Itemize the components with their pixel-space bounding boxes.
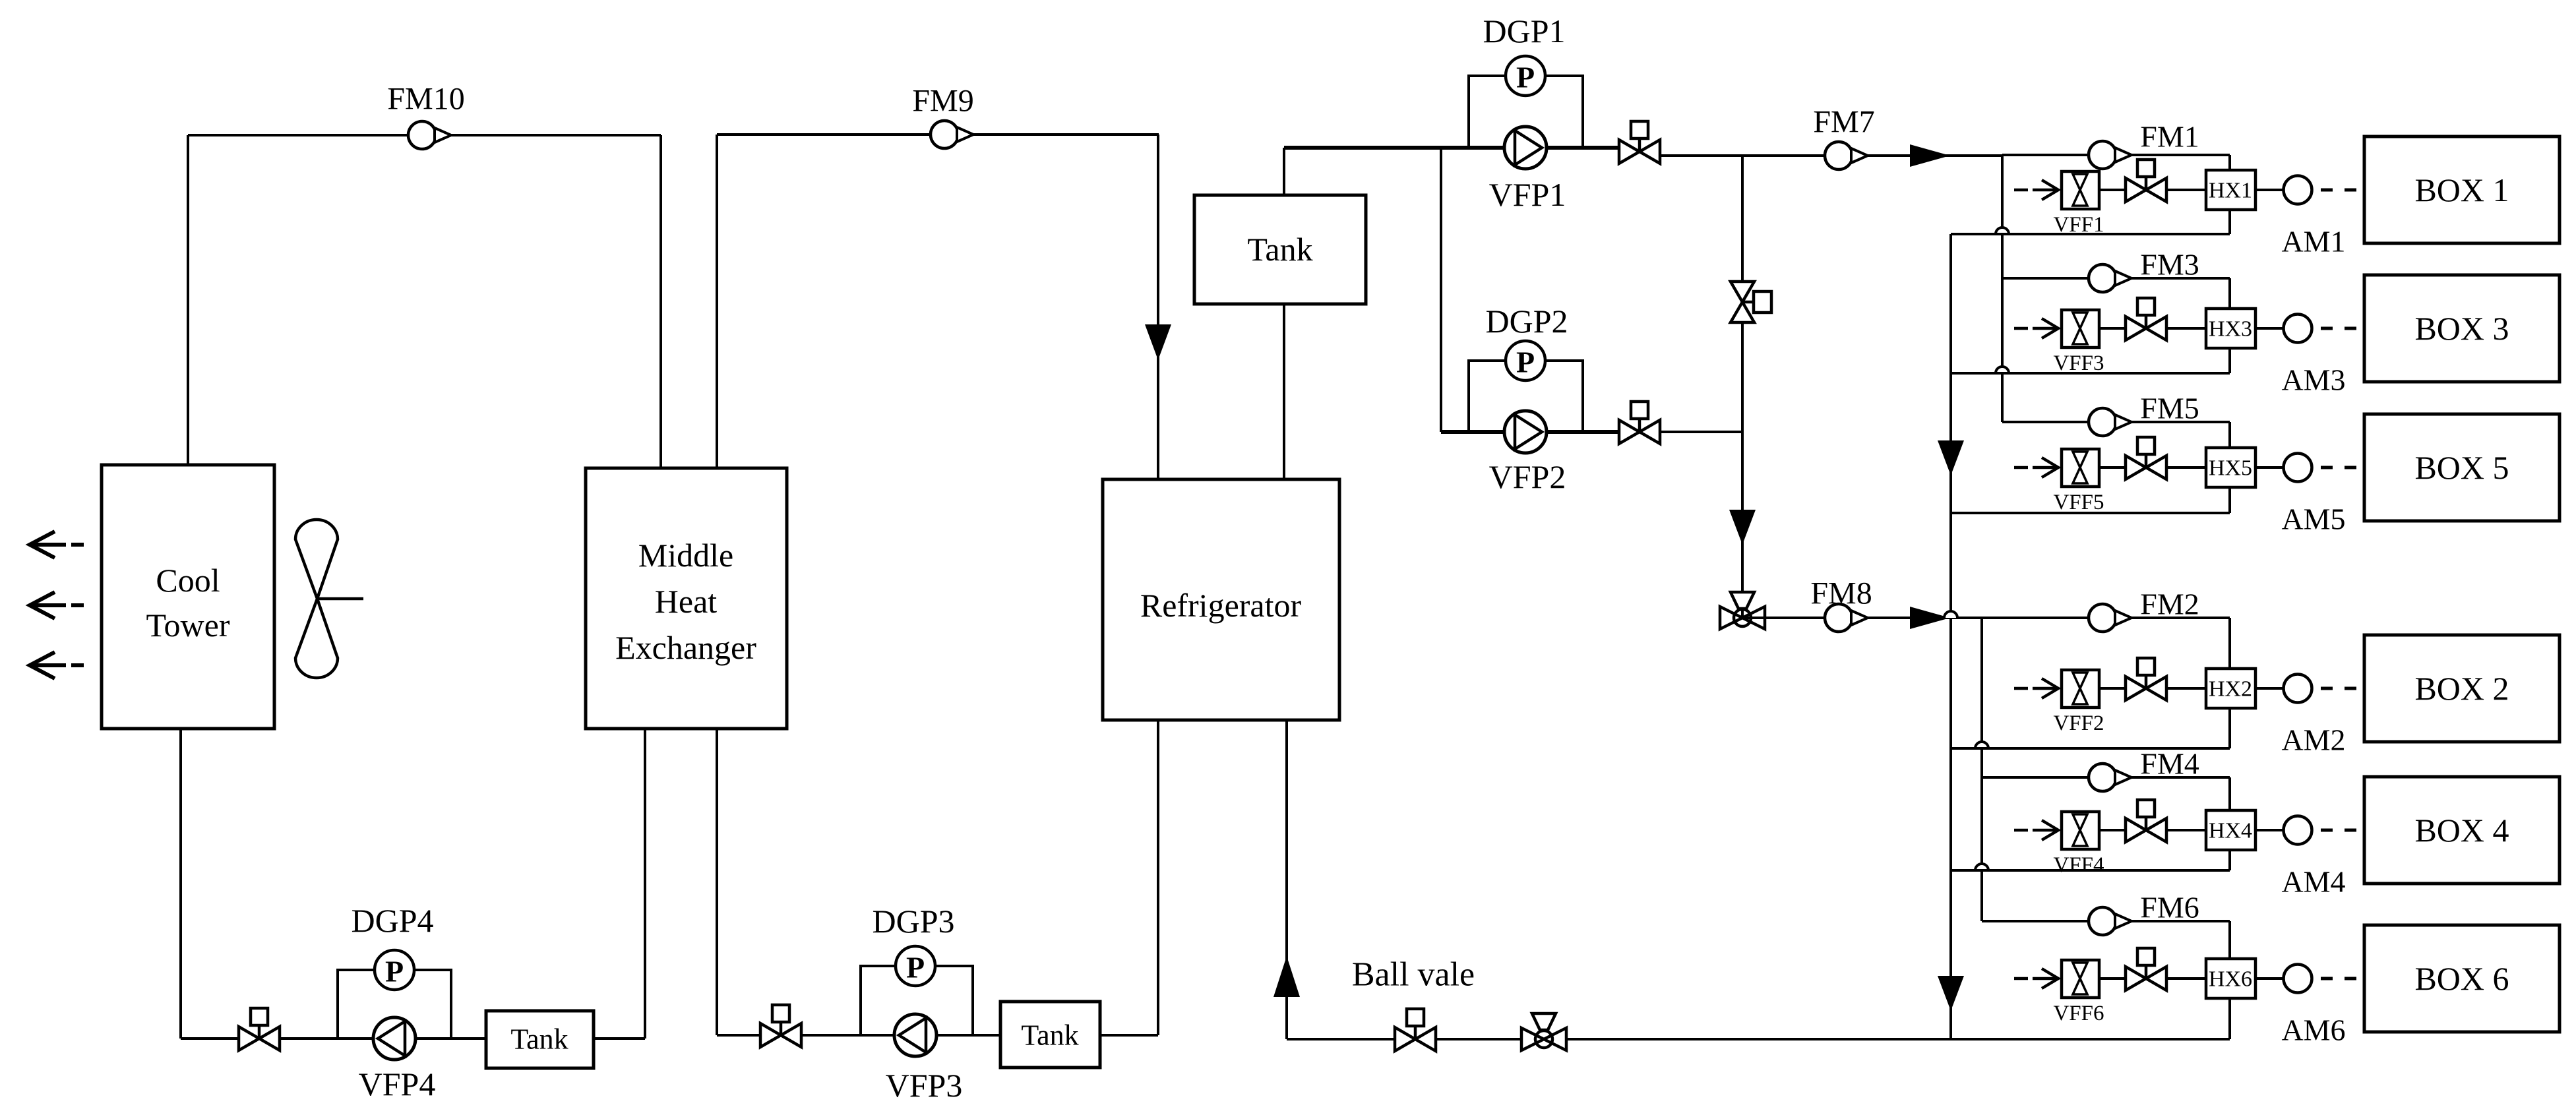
wire HX3 to AM3 (2255, 327, 2283, 330)
air monitor AM5 (2284, 454, 2312, 482)
variable flow fitting VFF4 (2062, 812, 2099, 849)
valve near Cool Tower (239, 1008, 280, 1050)
svg-text:FM3: FM3 (2140, 248, 2199, 282)
svg-text:FM6: FM6 (2140, 891, 2199, 924)
svg-text:VFF3: VFF3 (2053, 351, 2104, 375)
heat exchanger HX6 (2206, 959, 2255, 998)
svg-text:AM6: AM6 (2281, 1013, 2345, 1047)
junction bump row1 return at inner header (1996, 227, 2009, 234)
svg-text:BOX 5: BOX 5 (2414, 449, 2509, 486)
wire bottom return line (1287, 1038, 2230, 1040)
wire HX1 to AM1 (2255, 189, 2283, 191)
wire row 4 supply line (1982, 776, 2230, 779)
dashed duct AM3 to BOX 3 (2321, 327, 2356, 330)
wire row 1 return line (1951, 233, 2230, 235)
pump VFP1 (1504, 127, 1547, 169)
wire row 2 HX riser (2228, 618, 2231, 748)
wire FM10 top rail (188, 134, 661, 136)
svg-text:FM8: FM8 (1810, 576, 1872, 611)
flow meter FM5 (2089, 408, 2131, 436)
svg-text:HX2: HX2 (2209, 677, 2252, 702)
svg-text:VFF2: VFF2 (2053, 711, 2104, 735)
control valve row 3 (2126, 298, 2166, 340)
svg-text:VFP2: VFP2 (1489, 458, 1566, 495)
wire VFF3 to valve (2099, 327, 2126, 330)
wire valve to HX4 (2166, 829, 2206, 831)
wire HX2 to AM2 (2255, 687, 2283, 690)
pump VFP4 (373, 1017, 415, 1060)
BOX 5 box (2364, 414, 2560, 521)
wire row 5 return line (1951, 512, 2230, 514)
wire HX4 to AM4 (2255, 829, 2283, 831)
svg-text:Heat: Heat (655, 583, 717, 620)
control valve row 1 (2126, 160, 2166, 202)
wire VFF6 to valve (2099, 977, 2126, 980)
air flow arrow 1 (30, 531, 84, 558)
svg-text:AM5: AM5 (2281, 502, 2345, 536)
dashed duct AM1 to BOX 1 (2321, 189, 2356, 192)
wire row 6 supply line (1982, 920, 2230, 922)
svg-text:HX3: HX3 (2209, 317, 2252, 342)
upper Tank box (1194, 195, 1366, 304)
wire row 2 return line (1951, 747, 2230, 750)
BOX 4 box (2364, 777, 2560, 884)
flow meter FM2 (2089, 604, 2131, 632)
flow meter FM9 (931, 121, 973, 148)
svg-text:BOX 6: BOX 6 (2414, 960, 2509, 997)
svg-text:Tower: Tower (146, 607, 230, 644)
pressure gauge DGP4 (375, 950, 414, 990)
variable flow fitting VFF5 (2062, 449, 2099, 487)
heat exchanger HX4 (2206, 810, 2255, 850)
svg-text:DGP4: DGP4 (351, 902, 433, 939)
Middle Heat Exchanger box (586, 468, 787, 729)
wire MHE top-left riser (659, 135, 662, 468)
wire row 4 HX riser (2228, 777, 2231, 870)
bypass valve on riser (1731, 282, 1771, 322)
svg-text:HX4: HX4 (2209, 819, 2252, 843)
wire outer header (1949, 234, 1952, 1039)
svg-text:AM2: AM2 (2281, 723, 2345, 757)
fan symbol (295, 520, 363, 678)
wire VFF2 to valve (2099, 687, 2126, 690)
wire MHE top-right riser (716, 135, 718, 468)
wire bottom line to Tank1 (181, 1037, 487, 1040)
wire HX6 to AM6 (2255, 977, 2283, 980)
svg-text:VFP1: VFP1 (1489, 176, 1566, 213)
wire Tank2 to Refrigerator riser (1100, 1034, 1158, 1037)
air inlet dashed arrow row 3 (2014, 318, 2058, 338)
svg-text:AM3: AM3 (2281, 363, 2345, 397)
arrow down on bypass riser (1729, 510, 1756, 545)
svg-text:FM1: FM1 (2140, 120, 2199, 154)
wire VFF1 to valve (2099, 189, 2126, 191)
svg-text:Tank: Tank (1021, 1019, 1078, 1052)
svg-text:FM2: FM2 (2140, 588, 2199, 621)
BOX 6 box (2364, 925, 2560, 1032)
wire row 1 HX riser (2228, 155, 2231, 234)
svg-text:VFP3: VFP3 (886, 1067, 963, 1104)
dashed duct AM4 to BOX 4 (2321, 829, 2356, 832)
svg-text:AM4: AM4 (2281, 865, 2345, 899)
flow meter FM4 (2089, 764, 2131, 791)
DGP2 bypass loop (1469, 361, 1583, 432)
svg-text:AM1: AM1 (2281, 225, 2345, 258)
variable flow fitting VFF6 (2062, 960, 2099, 998)
heat exchanger HX5 (2206, 448, 2255, 487)
pressure gauge DGP1 (1506, 56, 1545, 96)
air monitor AM1 (2284, 176, 2312, 204)
svg-text:FM7: FM7 (1813, 105, 1874, 140)
svg-text:VFF6: VFF6 (2053, 1002, 2104, 1025)
wire valve to HX2 (2166, 687, 2206, 690)
wire valve to HX3 (2166, 327, 2206, 330)
svg-text:Ball vale: Ball vale (1352, 956, 1475, 994)
wire MHE left return riser (644, 729, 646, 1039)
air monitor AM4 (2284, 816, 2312, 845)
junction bump row2 return at inner header (1975, 742, 1988, 748)
flow meter FM10 (408, 121, 451, 149)
flow meter FM1 (2089, 141, 2131, 169)
control valve row 6 (2126, 948, 2166, 990)
arrow down on outer header lower (1938, 976, 1964, 1011)
wire upper Tank top riser (1283, 148, 1285, 195)
wire branch down to VFP2 line (1440, 148, 1442, 432)
wire Refrigerator bottom-left riser (1157, 720, 1159, 1035)
wire bottom line to Tank2 (717, 1034, 1002, 1037)
wire FM8 line / row FM2 supply (1742, 617, 2230, 619)
heat exchanger HX3 (2206, 309, 2255, 348)
svg-text:BOX 2: BOX 2 (2414, 670, 2509, 707)
wire FM9 drop to Refrigerator (1157, 135, 1159, 481)
svg-text:HX6: HX6 (2209, 967, 2252, 992)
wire valve to HX5 (2166, 466, 2206, 469)
air flow arrow 2 (30, 592, 84, 618)
junction bump row4 return at inner header (1975, 864, 1988, 870)
wire row 1 supply line (2002, 154, 2230, 156)
heat exchanger HX2 (2206, 669, 2255, 708)
flow meter FM3 (2089, 264, 2131, 292)
wire VFP2 outlet to bypass riser (1660, 431, 1742, 433)
air monitor AM2 (2284, 675, 2312, 703)
svg-text:VFP4: VFP4 (359, 1066, 436, 1102)
DGP1 bypass loop (1469, 76, 1583, 148)
wire inner header upper (2001, 156, 2004, 422)
air inlet dashed arrow row 1 (2014, 180, 2058, 200)
flow meter FM8 (1825, 604, 1868, 632)
svg-text:Middle: Middle (638, 537, 733, 574)
wire row 3 supply line (2002, 277, 2230, 280)
svg-text:Exchanger: Exchanger (615, 629, 756, 666)
wire Refrigerator bottom-right drop (1285, 720, 1288, 1039)
wire VFF4 to valve (2099, 829, 2126, 831)
air flow arrow 3 (30, 652, 84, 678)
wire Cool Tower bottom drop (179, 729, 182, 1039)
svg-text:BOX 3: BOX 3 (2414, 310, 2509, 347)
wire valve to HX6 (2166, 977, 2206, 980)
BOX 3 box (2364, 275, 2560, 382)
svg-text:DGP1: DGP1 (1483, 13, 1565, 49)
svg-text:P: P (906, 951, 925, 984)
valve after VFP2 (1619, 402, 1660, 444)
svg-text:VFF1: VFF1 (2053, 213, 2104, 237)
wire row 5 HX riser (2228, 422, 2231, 513)
wire valve to HX1 (2166, 189, 2206, 191)
wire row 6 HX riser (2228, 921, 2231, 1039)
svg-text:HX5: HX5 (2209, 456, 2252, 481)
variable flow fitting VFF1 (2062, 171, 2099, 209)
arrow up on return line (1273, 956, 1300, 997)
svg-text:BOX 1: BOX 1 (2414, 171, 2509, 208)
junction bump FM8 line at outer header (1944, 611, 1957, 618)
control valve row 5 (2126, 437, 2166, 479)
wire upper Tank to Refrigerator (1283, 304, 1285, 481)
svg-text:HX1: HX1 (2209, 179, 2252, 203)
air inlet dashed arrow row 2 (2014, 678, 2058, 698)
svg-text:BOX 4: BOX 4 (2414, 812, 2509, 849)
svg-text:DGP2: DGP2 (1485, 303, 1568, 340)
variable flow fitting VFF3 (2062, 310, 2099, 347)
ball valve on return line (1395, 1009, 1436, 1051)
wire row 5 supply line (2002, 421, 2230, 423)
wire HX5 to AM5 (2255, 466, 2283, 469)
svg-text:FM10: FM10 (387, 82, 464, 117)
svg-text:FM4: FM4 (2140, 747, 2199, 781)
dashed duct AM5 to BOX 5 (2321, 466, 2356, 469)
tank T4 (Tank1) (486, 1011, 594, 1068)
pressure gauge DGP3 (896, 946, 935, 986)
svg-text:P: P (1516, 61, 1535, 94)
wire Tank1 to MHE riser (594, 1037, 645, 1040)
control valve row 4 (2126, 800, 2166, 842)
junction bump row3 return at inner header (1996, 367, 2009, 373)
wire VFF5 to valve (2099, 466, 2126, 469)
svg-text:P: P (385, 955, 404, 988)
arrow right on FM7 line (1910, 144, 1950, 167)
BOX 2 box (2364, 635, 2560, 742)
svg-text:Tank: Tank (510, 1023, 568, 1056)
dashed duct AM6 to BOX 6 (2321, 977, 2356, 980)
Refrigerator box (1103, 479, 1339, 720)
svg-text:VFF4: VFF4 (2053, 853, 2104, 877)
control valve row 2 (2126, 658, 2166, 700)
svg-text:FM9: FM9 (912, 84, 973, 119)
svg-text:Refrigerator: Refrigerator (1140, 587, 1302, 624)
svg-text:Tank: Tank (1247, 231, 1312, 268)
pump VFP3 (894, 1014, 936, 1056)
dashed duct AM2 to BOX 2 (2321, 687, 2356, 690)
DGP4 bypass loop (338, 970, 451, 1039)
wire FM9 rail (717, 133, 1159, 136)
valve after VFP1 (1619, 121, 1660, 164)
arrow down on FM9 drop (1145, 324, 1171, 360)
wire inner header lower (1980, 618, 1983, 921)
svg-text:P: P (1516, 346, 1535, 379)
wire Cool Tower top riser (187, 135, 189, 466)
svg-text:VFF5: VFF5 (2053, 491, 2104, 514)
tank T3 (Tank2) (1000, 1002, 1100, 1068)
Cool Tower box (102, 465, 274, 729)
wire VFP2 line (1441, 430, 1619, 434)
air inlet dashed arrow row 6 (2014, 969, 2058, 988)
variable flow fitting VFF2 (2062, 670, 2099, 708)
flow meter FM6 (2089, 907, 2131, 935)
wire VFP1 suction/discharge line (1284, 146, 1619, 150)
pressure gauge DGP2 (1506, 341, 1545, 380)
DGP3 bypass loop (861, 966, 973, 1035)
air monitor AM3 (2284, 315, 2312, 343)
three-way valve on return line (1521, 1013, 1566, 1050)
heat exchanger HX1 (2206, 170, 2255, 210)
wire MHE bottom-right drop (716, 729, 718, 1035)
wire FM7 line (1660, 154, 2002, 157)
flow meter FM7 (1825, 142, 1868, 169)
air monitor AM6 (2284, 965, 2312, 993)
three-way valve at FM8 line start (1720, 592, 1765, 629)
wire row 3 HX riser (2228, 278, 2231, 373)
wire row 4 return line (1951, 869, 2230, 872)
arrow down on outer header upper (1938, 440, 1964, 475)
valve near MHE (760, 1005, 801, 1047)
svg-text:Cool: Cool (156, 562, 220, 599)
svg-text:FM5: FM5 (2140, 392, 2199, 425)
wire bypass riser FM7 to FM8 (1741, 156, 1744, 618)
wire row 3 return line (1951, 372, 2230, 375)
air inlet dashed arrow row 5 (2014, 458, 2058, 477)
svg-text:DGP3: DGP3 (872, 903, 954, 940)
arrow right on FM8 line (1910, 607, 1950, 629)
pump VFP2 (1504, 411, 1547, 453)
BOX 1 box (2364, 136, 2560, 243)
air inlet dashed arrow row 4 (2014, 820, 2058, 840)
